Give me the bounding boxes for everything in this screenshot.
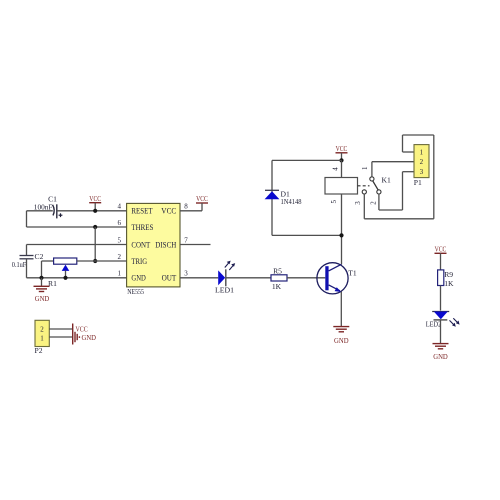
node junction on THRES line <box>93 225 97 229</box>
wire T1 collector up to relay <box>341 194 343 264</box>
pin number 7 <box>184 236 188 244</box>
svg-text:RESET: RESET <box>131 207 152 216</box>
power VCC symbol rotated at P2 <box>73 324 88 334</box>
wire pin 3 run to contact 2 <box>379 209 403 211</box>
svg-text:1K: 1K <box>444 279 454 288</box>
LED LED1 <box>215 261 235 295</box>
wire P1 pin 3 out <box>403 171 415 173</box>
node junction R1 left on GND line <box>39 276 43 280</box>
svg-text:5: 5 <box>330 200 338 204</box>
node junction collector-D1 rail <box>339 233 343 237</box>
svg-text:5: 5 <box>118 236 122 244</box>
connector P1 <box>414 145 429 188</box>
wire P2 pin 1 to GND <box>49 336 72 338</box>
wire IC pin 8 to VCC <box>180 210 202 212</box>
wire top run <box>403 134 434 136</box>
ground symbol below LED2 <box>433 344 449 361</box>
svg-text:3: 3 <box>354 201 362 205</box>
svg-text:1: 1 <box>118 270 122 278</box>
svg-text:T1: T1 <box>348 269 357 278</box>
svg-text:NE555: NE555 <box>127 287 144 296</box>
node junction VCC-relay top <box>339 158 343 162</box>
svg-text:LED2: LED2 <box>426 319 442 328</box>
wire left vertical RESET to THRES <box>26 211 28 227</box>
pin number 8 <box>184 203 188 211</box>
wire left vertical CONT to C2 <box>26 245 28 256</box>
svg-text:GND: GND <box>35 294 50 303</box>
svg-text:GND: GND <box>82 333 97 342</box>
svg-text:0.1uF: 0.1uF <box>12 260 26 269</box>
wire THRES line to IC pin 6 <box>27 226 127 228</box>
svg-text:8: 8 <box>184 203 188 211</box>
node junction on TRIG line <box>93 259 97 263</box>
relay K1 coil <box>325 167 391 204</box>
svg-text:3: 3 <box>420 168 424 176</box>
resistor R9 <box>438 270 454 288</box>
wire P2 pin 2 to VCC <box>49 328 72 330</box>
wire R5 to T1 base <box>287 277 325 279</box>
svg-text:DISCH: DISCH <box>155 240 176 249</box>
wire pin 3 vertical <box>402 172 404 210</box>
pin number 1 <box>118 270 122 278</box>
svg-text:LED1: LED1 <box>215 286 234 295</box>
wire top rail to D1 <box>272 159 342 161</box>
wire into P1 pin 1 <box>403 151 415 153</box>
svg-text:VCC: VCC <box>336 144 348 153</box>
svg-text:1: 1 <box>40 335 44 343</box>
power VCC symbol above pin 4 <box>89 194 101 211</box>
svg-text:VCC: VCC <box>161 207 176 216</box>
svg-text:C2: C2 <box>35 252 44 261</box>
pin number 5 <box>118 236 122 244</box>
wire contact 2 down stem <box>378 194 380 210</box>
power VCC symbol above R9 <box>435 244 447 270</box>
resistor R5 <box>271 267 287 291</box>
wire switch common up <box>371 162 373 177</box>
svg-text:4: 4 <box>118 203 122 211</box>
power VCC symbol above pin 8 <box>196 194 208 211</box>
svg-text:TRIG: TRIG <box>131 257 147 266</box>
op-amp U1 NE555 timer IC body <box>127 203 180 296</box>
wire vertical THRES to TRIG <box>94 227 96 261</box>
svg-text:1: 1 <box>361 166 369 170</box>
svg-text:2: 2 <box>369 201 377 205</box>
wire right side vertical <box>433 135 435 219</box>
svg-text:VCC: VCC <box>89 194 101 203</box>
diode D1 1N4148 <box>265 189 302 206</box>
wire relay coil top stem <box>341 160 343 177</box>
wire bottom run to right side <box>364 218 434 220</box>
wire GND line to IC pin 1 <box>27 277 127 279</box>
svg-text:1K: 1K <box>272 282 282 291</box>
svg-text:CONT: CONT <box>131 240 150 249</box>
wire TRIG line from R1 to IC pin 2 <box>77 260 127 262</box>
svg-text:4: 4 <box>331 167 339 171</box>
wire T1 emitter down to ground <box>340 292 342 327</box>
wire bottom rail D1 to collector <box>272 234 342 236</box>
wire RESET line left of C1 <box>27 210 53 212</box>
node junction R1 wiper on GND line <box>63 276 67 280</box>
svg-text:1N4148: 1N4148 <box>281 197 302 206</box>
pin number 6 <box>118 219 122 227</box>
svg-text:2: 2 <box>40 326 44 334</box>
wire IC pin 3 OUT to LED1 <box>180 277 218 279</box>
ground symbol rotated at P2 <box>73 332 97 345</box>
capacitor C2 <box>12 252 44 269</box>
wire RESET line from C1 to IC pin 4 <box>57 210 127 212</box>
switch K1 contacts <box>354 166 381 205</box>
pin number 4 <box>118 203 122 211</box>
svg-text:3: 3 <box>184 270 188 278</box>
svg-text:K1: K1 <box>382 175 391 184</box>
wire dashed relay actuator link <box>358 185 370 187</box>
svg-text:GND: GND <box>334 336 349 345</box>
pin number 3 <box>184 270 188 278</box>
svg-text:GND: GND <box>131 274 145 283</box>
node junction VCC-RESET <box>93 209 97 213</box>
wire common to P1 pin 2 <box>372 161 414 163</box>
wire LED2 to ground <box>440 320 442 344</box>
wire down to P1 pin 1 <box>402 135 404 152</box>
svg-text:OUT: OUT <box>162 274 177 283</box>
ground symbol below T1 <box>333 327 349 345</box>
power VCC symbol above relay <box>336 144 348 161</box>
connector P2 <box>35 320 50 355</box>
svg-text:P2: P2 <box>35 346 43 355</box>
LED LED2 <box>426 312 460 329</box>
wire CONT line to IC pin 5 <box>27 244 127 246</box>
svg-text:P1: P1 <box>414 178 422 187</box>
wire IC pin 7 DISCH stub <box>180 244 211 246</box>
potentiometer R1 <box>42 258 77 288</box>
pin number 2 <box>118 253 122 261</box>
svg-text:R9: R9 <box>444 270 453 279</box>
svg-text:GND: GND <box>433 352 448 361</box>
wire D1 branch vertical <box>271 160 273 235</box>
wire C2 down to GND line <box>26 259 28 278</box>
wire R9 to LED2 <box>440 286 442 311</box>
capacitor C1 <box>34 195 63 219</box>
svg-text:2: 2 <box>420 158 424 166</box>
svg-text:100nF: 100nF <box>34 202 53 211</box>
svg-text:R5: R5 <box>273 267 282 276</box>
wire LED1 to R5 <box>226 277 271 279</box>
svg-text:6: 6 <box>118 219 122 227</box>
transistor T1 <box>317 263 357 294</box>
ground symbol below R1 <box>34 278 50 303</box>
svg-text:7: 7 <box>184 236 188 244</box>
svg-text:VCC: VCC <box>435 244 447 253</box>
svg-text:2: 2 <box>118 253 122 261</box>
svg-text:1: 1 <box>420 148 424 156</box>
wire contact 3 down <box>363 194 365 219</box>
svg-text:THRES: THRES <box>131 223 153 232</box>
svg-text:VCC: VCC <box>196 194 208 203</box>
